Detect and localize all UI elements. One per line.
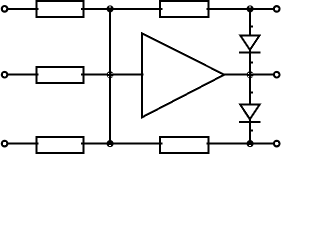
node E junction <box>247 71 254 78</box>
wire R1 to R4 <box>81 8 163 10</box>
op-amp U1 <box>142 33 224 117</box>
node C junction <box>107 140 114 147</box>
wire R3 to R5 <box>81 143 163 145</box>
diode D2 <box>239 105 261 122</box>
wire R2 to op-amp input <box>81 74 144 76</box>
node F junction <box>247 140 254 147</box>
diode D2 pin 1 tick <box>251 92 253 94</box>
node D junction <box>247 5 254 12</box>
resistor R4 <box>160 1 209 17</box>
diode D1 <box>239 35 261 52</box>
wire vertical diode branch <box>249 9 251 144</box>
diode D1 pin 2 tick <box>251 62 253 64</box>
resistor R1 <box>37 1 84 17</box>
diode D1 pin 1 tick <box>251 25 253 27</box>
resistor R5 <box>160 137 209 153</box>
terminal input 2 <box>1 71 9 79</box>
wire input 1 to R1 <box>7 8 38 10</box>
wire R5 to node F <box>207 143 275 145</box>
wire input 2 to R2 <box>7 74 38 76</box>
wire input 3 to R3 <box>7 143 38 145</box>
terminal output 2 <box>273 71 281 79</box>
node B junction <box>107 71 114 78</box>
node A junction <box>107 5 114 12</box>
resistor R2 <box>37 67 84 83</box>
terminal output 1 <box>273 5 281 13</box>
terminal input 1 <box>1 5 9 13</box>
wire op-amp output to node E <box>224 74 275 76</box>
terminal output 3 <box>273 140 281 148</box>
wire R4 to node D <box>207 8 275 10</box>
wire vertical bus <box>109 9 111 144</box>
resistor R3 <box>37 137 84 153</box>
terminal input 3 <box>1 140 9 148</box>
diode D2 pin 2 tick <box>251 130 253 132</box>
